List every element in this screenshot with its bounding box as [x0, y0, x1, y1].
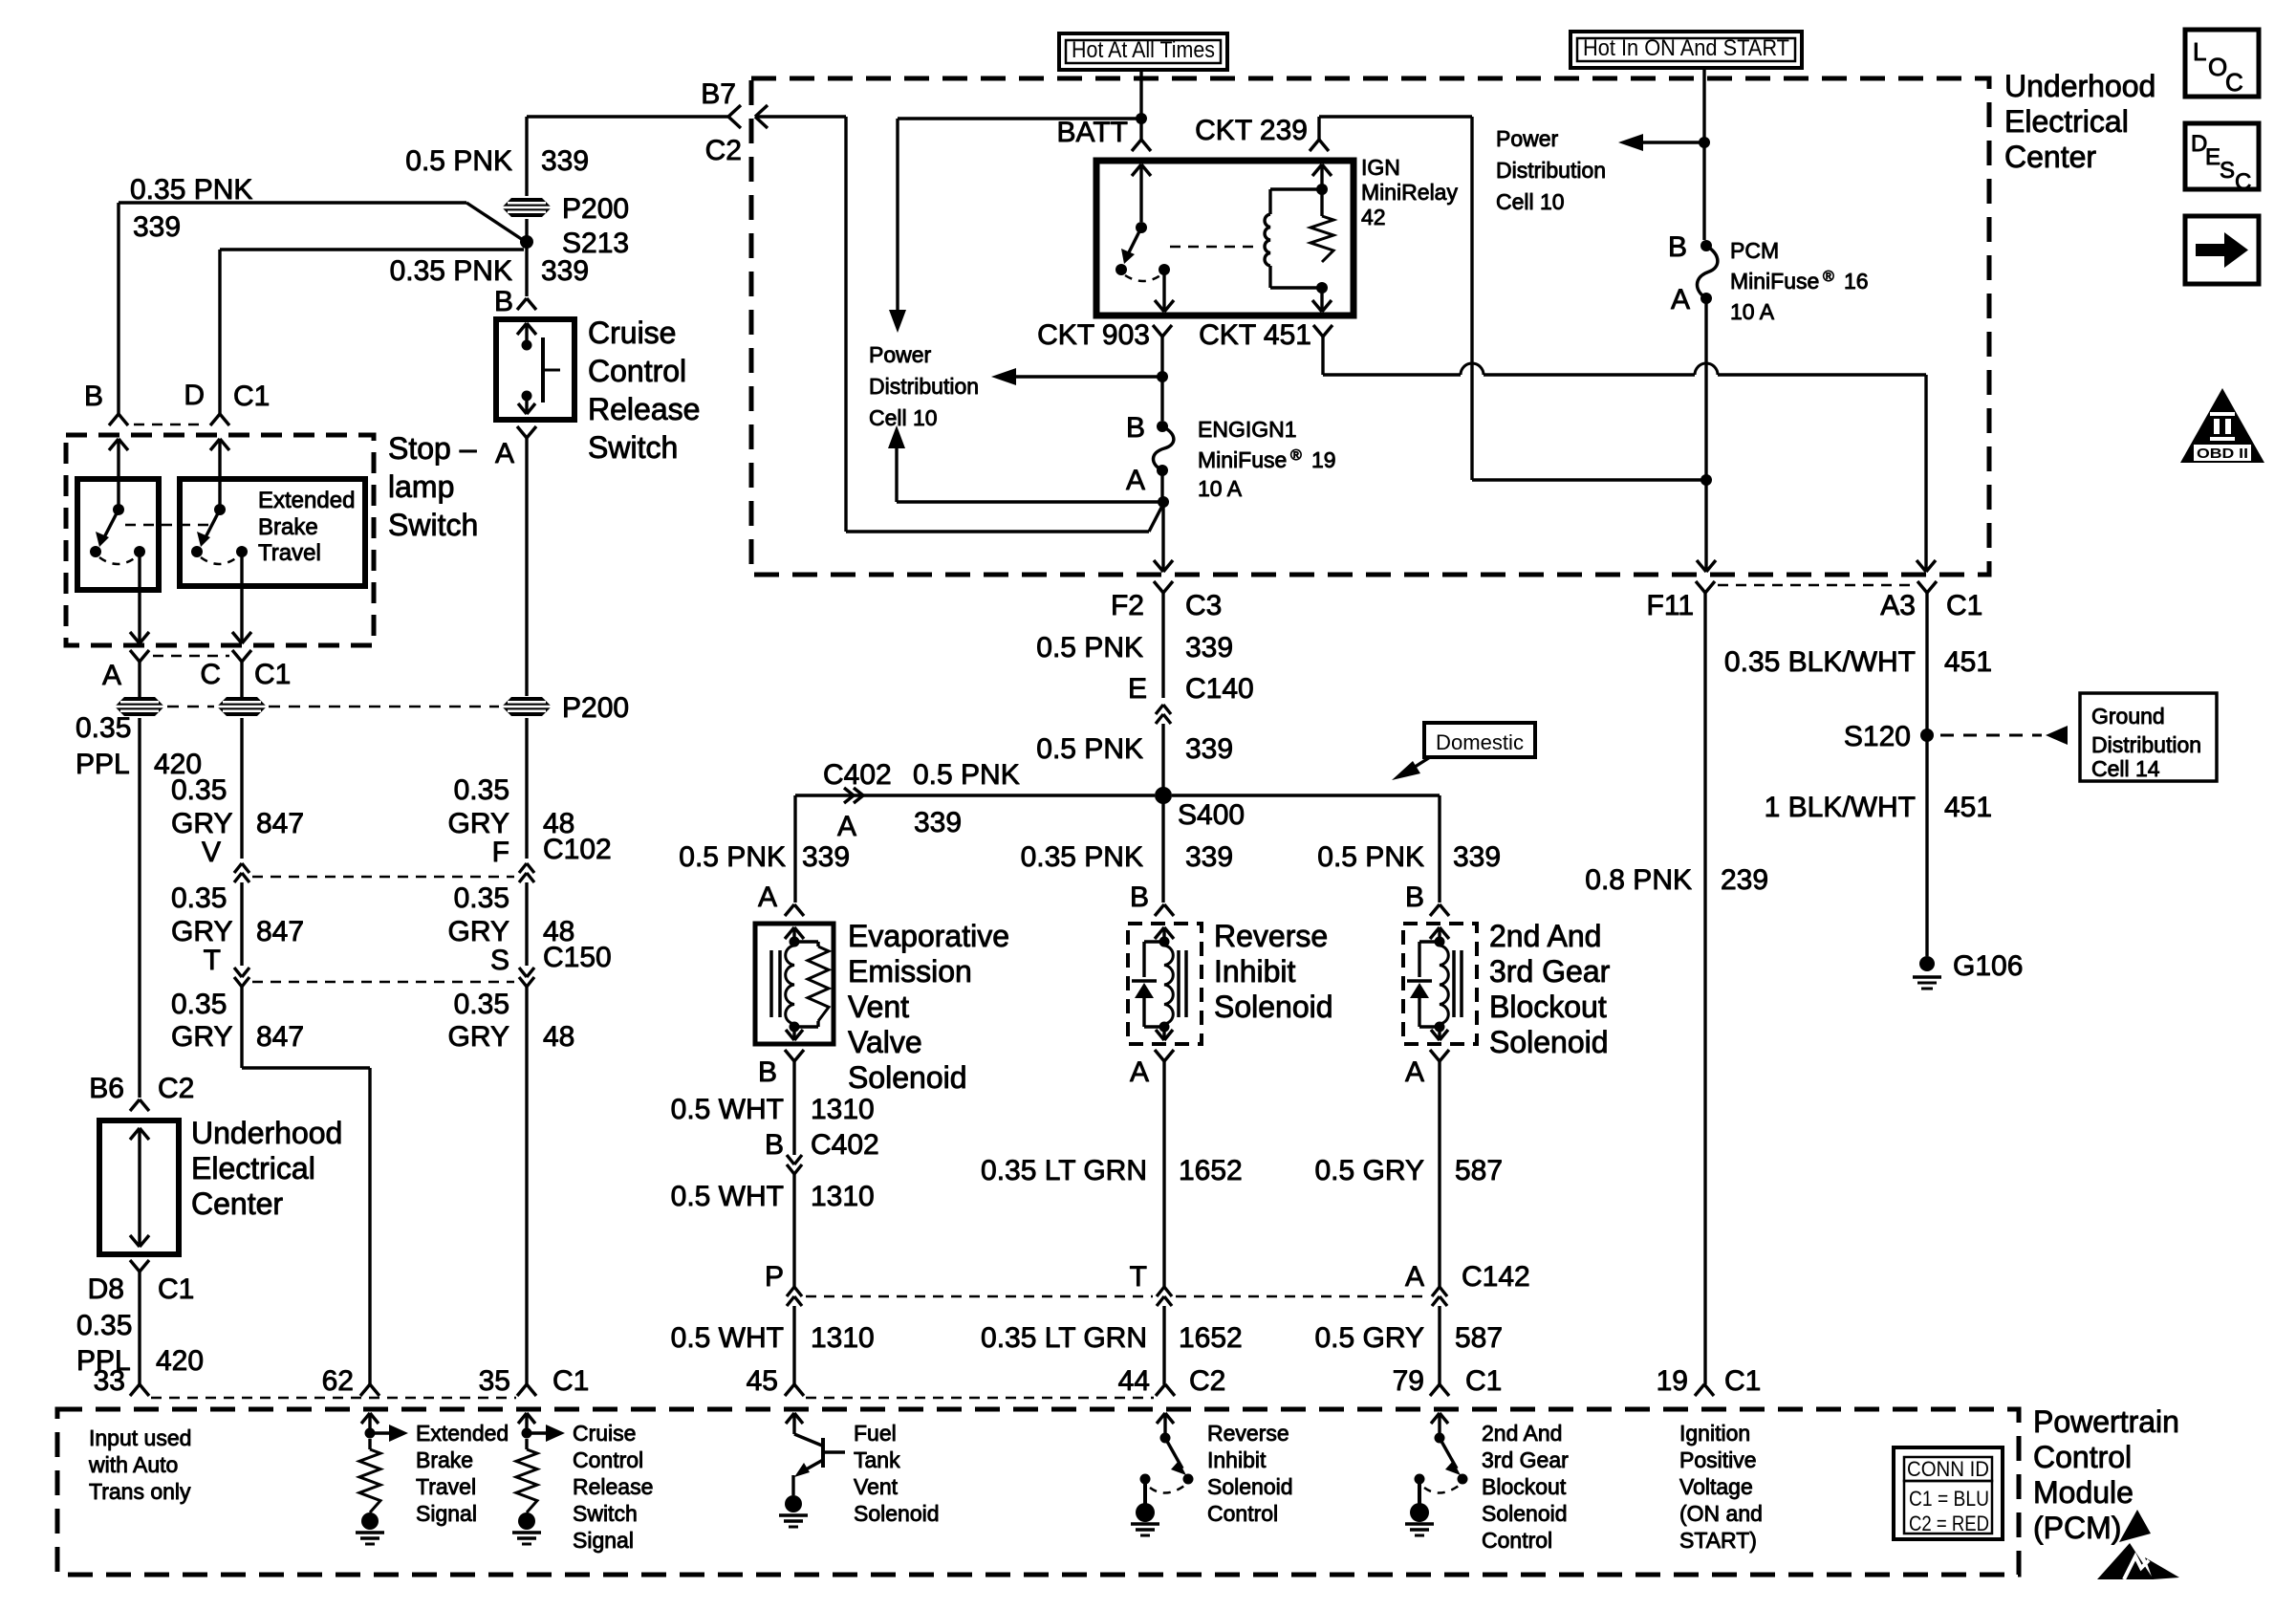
svg-text:A: A [102, 660, 121, 691]
svg-text:Emission: Emission [848, 954, 972, 989]
svg-text:0.5 PNK: 0.5 PNK [1317, 841, 1424, 873]
svg-text:0.35: 0.35 [454, 882, 509, 914]
svg-text:33: 33 [94, 1365, 125, 1397]
svg-text:A: A [495, 438, 514, 469]
svg-text:A: A [1405, 1261, 1424, 1293]
svg-text:D8: D8 [88, 1273, 124, 1305]
svg-text:Tank: Tank [854, 1447, 900, 1472]
svg-text:F: F [492, 837, 509, 868]
svg-text:Solenoid: Solenoid [1207, 1474, 1293, 1499]
svg-text:GRY: GRY [171, 916, 232, 947]
svg-text:Extended: Extended [416, 1421, 509, 1446]
svg-text:D: D [184, 380, 205, 411]
svg-text:B: B [1130, 881, 1149, 913]
svg-text:A: A [1671, 284, 1690, 315]
svg-text:1310: 1310 [811, 1094, 875, 1125]
svg-text:ENGIGN1: ENGIGN1 [1198, 417, 1297, 442]
svg-text:BATT: BATT [1057, 117, 1128, 148]
svg-text:Powertrain: Powertrain [2033, 1404, 2179, 1439]
svg-text:Control: Control [1207, 1501, 1278, 1526]
svg-text:0.5 GRY: 0.5 GRY [1314, 1322, 1424, 1354]
svg-text:Control: Control [2033, 1440, 2132, 1474]
svg-text:F11: F11 [1647, 590, 1694, 621]
svg-text:Distribution: Distribution [869, 374, 979, 399]
svg-text:0.35: 0.35 [171, 989, 227, 1020]
svg-text:Brake: Brake [416, 1447, 473, 1472]
svg-text:10 A: 10 A [1198, 476, 1243, 501]
svg-text:0.5 PNK: 0.5 PNK [679, 841, 786, 873]
svg-text:847: 847 [256, 808, 304, 839]
svg-text:Center: Center [2004, 140, 2096, 174]
svg-text:Distribution: Distribution [1496, 158, 1606, 183]
svg-text:GRY: GRY [171, 808, 232, 839]
svg-text:A3: A3 [1880, 590, 1916, 621]
svg-text:C2: C2 [705, 135, 742, 166]
svg-text:C1: C1 [254, 659, 291, 690]
svg-text:Reverse: Reverse [1207, 1421, 1289, 1446]
svg-text:847: 847 [256, 1021, 304, 1053]
svg-text:19: 19 [1657, 1365, 1688, 1397]
svg-text:1 BLK/WHT: 1 BLK/WHT [1765, 792, 1916, 823]
svg-text:E: E [1128, 673, 1147, 705]
svg-text:B: B [84, 381, 103, 412]
svg-text:Electrical: Electrical [2004, 104, 2129, 139]
svg-text:0.35 PNK: 0.35 PNK [1021, 841, 1143, 873]
svg-text:T: T [1130, 1261, 1147, 1293]
svg-text:0.35 LT GRN: 0.35 LT GRN [981, 1155, 1147, 1186]
svg-text:0.5 PNK: 0.5 PNK [913, 759, 1020, 791]
svg-text:(PCM): (PCM) [2033, 1511, 2121, 1545]
svg-text:239: 239 [1721, 864, 1768, 896]
svg-text:420: 420 [156, 1345, 204, 1377]
svg-text:Travel: Travel [416, 1474, 476, 1499]
svg-text:B: B [765, 1129, 784, 1161]
svg-text:339: 339 [541, 145, 589, 177]
svg-text:MiniFuse: MiniFuse [1198, 447, 1287, 472]
svg-text:Solenoid: Solenoid [854, 1501, 940, 1526]
svg-text:CONN ID: CONN ID [1907, 1457, 1989, 1481]
svg-text:Power: Power [869, 342, 932, 367]
svg-text:C402: C402 [823, 759, 892, 791]
svg-text:Input used: Input used [89, 1425, 191, 1450]
svg-text:42: 42 [1361, 205, 1386, 229]
svg-text:Signal: Signal [416, 1501, 477, 1526]
svg-text:P: P [765, 1261, 784, 1293]
svg-text:35: 35 [479, 1365, 510, 1397]
svg-text:Extended: Extended [258, 488, 355, 513]
svg-text:Signal: Signal [573, 1528, 634, 1553]
svg-text:Inhibit: Inhibit [1207, 1447, 1267, 1472]
svg-text:B7: B7 [701, 78, 736, 110]
svg-text:0.5 GRY: 0.5 GRY [1314, 1155, 1424, 1186]
svg-text:Ignition: Ignition [1679, 1421, 1750, 1446]
svg-text:MiniFuse: MiniFuse [1730, 269, 1819, 294]
svg-text:CKT 451: CKT 451 [1199, 319, 1311, 351]
svg-text:(ON and: (ON and [1679, 1501, 1763, 1526]
svg-text:A: A [1126, 465, 1145, 496]
svg-text:339: 339 [802, 841, 850, 873]
svg-text:Ground: Ground [2091, 704, 2165, 729]
svg-text:Solenoid: Solenoid [1482, 1501, 1568, 1526]
svg-text:C142: C142 [1462, 1261, 1530, 1293]
svg-text:CKT 903: CKT 903 [1037, 319, 1150, 351]
svg-text:S: S [2220, 158, 2235, 184]
svg-text:C2 = RED: C2 = RED [1909, 1512, 1989, 1535]
svg-text:C2: C2 [1189, 1365, 1225, 1397]
svg-text:Travel: Travel [258, 540, 321, 566]
svg-text:1310: 1310 [811, 1181, 875, 1212]
svg-text:339: 339 [1185, 632, 1233, 664]
svg-text:Hot In ON And START: Hot In ON And START [1583, 35, 1789, 61]
svg-text:587: 587 [1455, 1155, 1503, 1186]
svg-text:Cell 14: Cell 14 [2091, 756, 2160, 781]
svg-text:A: A [1405, 1056, 1424, 1088]
svg-text:START): START) [1679, 1528, 1757, 1553]
svg-text:B: B [494, 286, 513, 317]
svg-text:1310: 1310 [811, 1322, 875, 1354]
svg-text:B6: B6 [89, 1073, 124, 1104]
svg-text:GRY: GRY [448, 808, 509, 839]
svg-text:Vent: Vent [854, 1474, 899, 1499]
svg-text:339: 339 [541, 255, 589, 287]
svg-text:Trans only: Trans only [89, 1479, 191, 1504]
svg-text:G106: G106 [1953, 950, 2023, 982]
svg-text:0.5 PNK: 0.5 PNK [1036, 733, 1143, 765]
svg-text:Cruise: Cruise [573, 1421, 636, 1446]
svg-text:48: 48 [543, 808, 574, 839]
svg-text:C2: C2 [158, 1073, 194, 1104]
svg-text:C1: C1 [158, 1273, 194, 1305]
svg-text:PPL: PPL [76, 749, 130, 780]
svg-text:451: 451 [1944, 646, 1992, 678]
svg-text:P200: P200 [562, 692, 629, 724]
svg-text:C140: C140 [1185, 673, 1254, 705]
svg-text:GRY: GRY [448, 1021, 509, 1053]
svg-text:Stop –: Stop – [388, 431, 477, 466]
svg-text:Power: Power [1496, 126, 1559, 151]
svg-text:Reverse: Reverse [1214, 919, 1328, 953]
svg-text:C1: C1 [552, 1365, 589, 1397]
svg-text:2nd And: 2nd And [1489, 919, 1601, 953]
svg-text:339: 339 [1453, 841, 1501, 873]
svg-text:0.5 PNK: 0.5 PNK [405, 145, 512, 177]
svg-text:0.35: 0.35 [76, 712, 131, 744]
svg-text:2nd And: 2nd And [1482, 1421, 1562, 1446]
svg-text:Inhibit: Inhibit [1214, 954, 1296, 989]
svg-text:OBD II: OBD II [2197, 446, 2248, 462]
svg-text:Underhood: Underhood [2004, 69, 2155, 103]
svg-text:62: 62 [322, 1365, 354, 1397]
svg-text:Distribution: Distribution [2091, 732, 2201, 757]
svg-text:Control: Control [588, 354, 686, 388]
svg-text:44: 44 [1118, 1365, 1150, 1397]
svg-text:339: 339 [1185, 733, 1233, 765]
svg-text:C: C [2235, 169, 2251, 195]
svg-text:B: B [1126, 412, 1145, 444]
svg-text:0.35: 0.35 [171, 882, 227, 914]
svg-text:0.35: 0.35 [171, 774, 227, 806]
svg-text:16: 16 [1844, 269, 1869, 294]
svg-text:Voltage: Voltage [1679, 1474, 1753, 1499]
svg-text:S: S [490, 945, 509, 976]
svg-text:0.35 LT GRN: 0.35 LT GRN [981, 1322, 1147, 1354]
svg-text:S400: S400 [1178, 799, 1245, 831]
svg-text:339: 339 [133, 211, 181, 243]
svg-text:3rd Gear: 3rd Gear [1482, 1447, 1569, 1472]
svg-text:S120: S120 [1844, 721, 1911, 752]
svg-text:Domestic: Domestic [1436, 730, 1524, 754]
svg-text:C1: C1 [233, 381, 270, 412]
svg-text:A: A [837, 811, 856, 842]
svg-text:Hot At All Times: Hot At All Times [1072, 37, 1215, 63]
svg-text:Valve: Valve [848, 1025, 922, 1059]
svg-text:Switch: Switch [573, 1501, 638, 1526]
svg-text:lamp: lamp [388, 469, 454, 504]
svg-text:Brake: Brake [258, 514, 318, 540]
svg-text:19: 19 [1311, 447, 1336, 472]
svg-text:0.8 PNK: 0.8 PNK [1585, 864, 1692, 896]
svg-text:Control: Control [1482, 1528, 1552, 1553]
svg-text:C1: C1 [1465, 1365, 1502, 1397]
svg-text:847: 847 [256, 916, 304, 947]
svg-text:0.35 BLK/WHT: 0.35 BLK/WHT [1724, 646, 1916, 678]
svg-text:79: 79 [1393, 1365, 1424, 1397]
svg-text:339: 339 [914, 807, 962, 838]
svg-text:Cruise: Cruise [588, 315, 676, 350]
svg-text:Cell 10: Cell 10 [869, 405, 938, 430]
svg-text:®: ® [1290, 447, 1302, 464]
svg-text:0.35 PNK: 0.35 PNK [130, 174, 252, 206]
svg-text:T: T [204, 945, 221, 976]
svg-text:0.35: 0.35 [76, 1310, 132, 1341]
svg-text:339: 339 [1185, 841, 1233, 873]
svg-text:A: A [758, 881, 777, 913]
svg-text:Release: Release [573, 1474, 653, 1499]
svg-text:0.5 WHT: 0.5 WHT [671, 1322, 784, 1354]
svg-text:1652: 1652 [1179, 1155, 1243, 1186]
svg-text:L: L [2193, 37, 2206, 66]
svg-text:PCM: PCM [1730, 238, 1779, 263]
svg-text:48: 48 [543, 1021, 574, 1053]
svg-text:C402: C402 [811, 1129, 879, 1161]
svg-text:®: ® [1823, 269, 1834, 285]
svg-text:10 A: 10 A [1730, 299, 1775, 324]
svg-text:GRY: GRY [171, 1021, 232, 1053]
svg-text:0.5 WHT: 0.5 WHT [671, 1181, 784, 1212]
svg-text:C: C [2225, 68, 2243, 97]
svg-text:Module: Module [2033, 1475, 2134, 1510]
svg-text:Solenoid: Solenoid [1489, 1025, 1609, 1059]
svg-text:Solenoid: Solenoid [1214, 990, 1333, 1024]
svg-text:C3: C3 [1185, 590, 1222, 621]
svg-text:Release: Release [588, 392, 700, 426]
svg-text:B: B [1668, 231, 1687, 263]
svg-text:CKT 239: CKT 239 [1195, 115, 1308, 146]
svg-text:V: V [202, 837, 221, 868]
svg-text:F2: F2 [1111, 590, 1144, 621]
svg-text:B: B [1405, 881, 1424, 913]
svg-text:45: 45 [747, 1365, 778, 1397]
svg-text:Electrical: Electrical [191, 1151, 315, 1186]
svg-text:A: A [1130, 1056, 1149, 1088]
svg-text:C: C [200, 659, 221, 690]
svg-text:C1: C1 [1946, 590, 1982, 621]
svg-text:P200: P200 [562, 193, 629, 225]
svg-text:48: 48 [543, 916, 574, 947]
svg-text:IGN: IGN [1361, 155, 1400, 180]
svg-text:0.35: 0.35 [454, 989, 509, 1020]
svg-text:Switch: Switch [388, 508, 478, 542]
svg-text:Vent: Vent [848, 990, 909, 1024]
svg-text:Switch: Switch [588, 430, 678, 465]
svg-text:Solenoid: Solenoid [848, 1060, 967, 1095]
svg-text:0.5 WHT: 0.5 WHT [671, 1094, 784, 1125]
svg-text:Underhood: Underhood [191, 1116, 342, 1150]
svg-text:MiniRelay: MiniRelay [1361, 180, 1458, 205]
svg-text:Cell 10: Cell 10 [1496, 189, 1565, 214]
svg-text:Control: Control [573, 1447, 643, 1472]
svg-text:C1: C1 [1724, 1365, 1761, 1397]
svg-text:Fuel: Fuel [854, 1421, 897, 1446]
svg-text:Blockout: Blockout [1482, 1474, 1567, 1499]
svg-text:GRY: GRY [448, 916, 509, 947]
svg-text:C1 = BLU: C1 = BLU [1909, 1487, 1989, 1511]
svg-text:Blockout: Blockout [1489, 990, 1607, 1024]
svg-text:587: 587 [1455, 1322, 1503, 1354]
svg-text:with Auto: with Auto [88, 1452, 178, 1477]
svg-text:1652: 1652 [1179, 1322, 1243, 1354]
svg-text:0.5 PNK: 0.5 PNK [1036, 632, 1143, 664]
svg-text:3rd Gear: 3rd Gear [1489, 954, 1611, 989]
svg-text:Center: Center [191, 1186, 283, 1221]
svg-text:E: E [2205, 144, 2220, 170]
svg-text:0.35: 0.35 [454, 774, 509, 806]
svg-text:451: 451 [1944, 792, 1992, 823]
svg-text:Evaporative: Evaporative [848, 919, 1009, 953]
svg-text:B: B [758, 1056, 777, 1088]
svg-text:Positive: Positive [1679, 1447, 1757, 1472]
svg-text:0.35 PNK: 0.35 PNK [390, 255, 512, 287]
